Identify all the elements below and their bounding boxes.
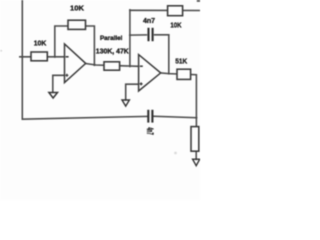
U2 plus input mark — [140, 82, 143, 85]
svg-text:51K: 51K — [175, 56, 187, 65]
wire: left input rail down left edge and along bottom to capacitor C2 — [22, 0, 147, 119]
junction: right rail / bottom wire — [195, 117, 197, 119]
faint smudge left of R5 — [174, 152, 177, 155]
svg-text:Parallel: Parallel — [100, 35, 123, 42]
svg-text:10K: 10K — [34, 39, 47, 48]
resistor Rp parallel 130K,47K — [104, 62, 120, 70]
wire: U2 top feedback through R3 exiting right edge — [130, 9, 200, 11]
capacitor C1 4n7 (U2 feedback) — [149, 28, 153, 41]
junction: U1 output / feedback — [93, 64, 95, 66]
wire: R5 bottom lead to ground — [195, 151, 197, 159]
wire: input wire through R1 into op-amp U1 minus input — [20, 56, 65, 58]
ground G1 (U1 plus input) — [49, 93, 58, 99]
svg-text:4n7: 4n7 — [143, 16, 155, 25]
svg-text:10K: 10K — [70, 3, 85, 12]
svg-text:4n7: 4n7 — [145, 127, 155, 135]
resistor R1 10K (input) — [31, 52, 47, 61]
U1 plus input mark — [65, 74, 68, 77]
junction: U2 output node — [168, 73, 170, 75]
svg-text:10K: 10K — [170, 21, 182, 30]
wire: U1 plus input to ground — [53, 75, 65, 92]
op-amp U1 — [65, 44, 86, 83]
ground G2 (U2 plus input) — [122, 100, 129, 106]
junction: C1 / feedback vertical — [129, 34, 131, 36]
svg-text:130K, 47K: 130K, 47K — [96, 49, 129, 56]
junction: U2 minus input node — [129, 65, 131, 67]
faint speck left edge — [0, 50, 2, 52]
ground G3 (below R5) — [193, 159, 200, 166]
U2 minus input mark — [140, 65, 143, 67]
resistor R4 51K (output) — [177, 69, 191, 79]
wire: bottom feedback wire from C2 to right rail — [154, 116, 197, 117]
junction: rail / input wire — [21, 56, 23, 58]
wire: U2 output through R4 then down right rail to R5 — [161, 73, 197, 127]
resistor R3 10K (U2 top feedback) — [168, 6, 183, 16]
op-amp U2 — [139, 55, 161, 91]
wire: capacitor C1 feedback, right segment — [155, 34, 169, 36]
wire: U1 feedback loop (up, across top through R2, down to output) — [55, 26, 95, 65]
resistor R5 (vertical, to ground) — [191, 127, 199, 152]
resistor R2 10K (U1 feedback) — [68, 20, 86, 29]
junction: U1 feedback tap — [54, 56, 56, 58]
wire: capacitor C1 feedback, left segment — [130, 34, 147, 36]
paper background — [0, 0, 200, 200]
wire: U2 plus input to ground — [126, 84, 139, 100]
wire: U2 feedback node vertical — [129, 10, 131, 67]
capacitor C2 4n7 (bottom feedback) — [148, 110, 152, 123]
corner artifact top right — [197, 0, 200, 2]
wire: C1 feedback down to U2 output — [168, 35, 170, 74]
U1 minus input mark — [66, 56, 69, 58]
wire: U1 output through parallel resistor to U2 minus input — [86, 64, 139, 67]
